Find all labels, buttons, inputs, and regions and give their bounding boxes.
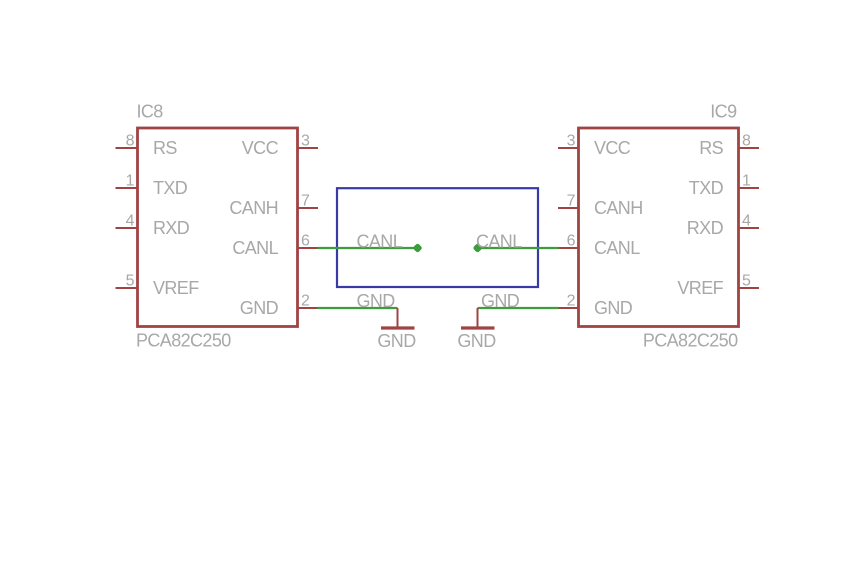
- IC8 pin 3 VCC: [242, 133, 318, 159]
- IC8 pin 1 TXD: [116, 173, 188, 199]
- svg-text:PCA82C250: PCA82C250: [136, 331, 231, 351]
- IC U9 body (PCA82C250 right): [579, 128, 739, 327]
- svg-text:PCA82C250: PCA82C250: [643, 331, 738, 351]
- svg-text:TXD: TXD: [153, 178, 188, 198]
- IC8 pin 6 CANL: [232, 233, 318, 259]
- svg-text:5: 5: [126, 273, 135, 290]
- svg-text:1: 1: [742, 173, 751, 190]
- svg-text:VCC: VCC: [594, 138, 631, 158]
- wire net CANL from right junction to IC9 pin 6: [481, 247, 559, 249]
- wire net CANL from IC8 pin 6 to left junction: [318, 247, 415, 249]
- IC9 pin 5 VREF: [677, 273, 759, 299]
- IC9 pin 2 GND: [558, 293, 633, 319]
- svg-text:IC8: IC8: [137, 102, 164, 122]
- wire net GND from ground to IC9 pin 2 (right): [478, 307, 559, 309]
- svg-text:3: 3: [567, 133, 576, 150]
- svg-text:1: 1: [126, 173, 135, 190]
- IC9 pin 4 RXD: [687, 213, 759, 239]
- IC8 pin 5 VREF: [116, 273, 200, 299]
- svg-text:CANL: CANL: [232, 238, 278, 258]
- svg-text:CANH: CANH: [594, 198, 643, 218]
- svg-text:VREF: VREF: [677, 278, 723, 298]
- svg-text:2: 2: [567, 293, 576, 310]
- IC9 pin 7 CANH: [558, 193, 643, 219]
- svg-text:GND: GND: [357, 291, 396, 311]
- ground symbol (right): [461, 308, 495, 328]
- IC9 pin 3 VCC: [558, 133, 631, 159]
- svg-text:CANL: CANL: [476, 232, 522, 252]
- svg-text:TXD: TXD: [689, 178, 724, 198]
- svg-text:6: 6: [567, 233, 576, 250]
- svg-text:RXD: RXD: [153, 218, 190, 238]
- svg-text:2: 2: [301, 293, 310, 310]
- svg-text:GND: GND: [457, 331, 496, 351]
- wire net GND from IC8 pin 2 to ground (left): [318, 307, 398, 309]
- svg-text:VCC: VCC: [242, 138, 279, 158]
- svg-text:6: 6: [301, 233, 310, 250]
- svg-text:VREF: VREF: [153, 278, 199, 298]
- svg-text:5: 5: [742, 273, 751, 290]
- svg-text:8: 8: [742, 133, 751, 150]
- svg-text:7: 7: [567, 193, 576, 210]
- svg-text:CANL: CANL: [357, 232, 403, 252]
- svg-text:CANL: CANL: [594, 238, 640, 258]
- IC9 pin 6 CANL: [558, 233, 640, 259]
- ground symbol (left): [381, 308, 415, 328]
- svg-text:RS: RS: [699, 138, 723, 158]
- IC8 pin 7 CANH: [229, 193, 318, 219]
- blue annotation box: [337, 188, 538, 287]
- IC8 pin 4 RXD: [116, 213, 190, 239]
- svg-text:GND: GND: [594, 298, 633, 318]
- svg-text:7: 7: [301, 193, 310, 210]
- IC8 pin 8 RS: [116, 133, 178, 159]
- svg-text:GND: GND: [240, 298, 279, 318]
- IC9 pin 1 TXD: [689, 173, 759, 199]
- IC9 pin 8 RS: [699, 133, 759, 159]
- IC U8 body (PCA82C250 left): [138, 128, 298, 327]
- svg-text:RS: RS: [153, 138, 177, 158]
- junction on net CANL (right): [474, 244, 482, 252]
- svg-text:IC9: IC9: [710, 102, 737, 122]
- svg-text:4: 4: [126, 213, 135, 230]
- svg-text:GND: GND: [481, 291, 520, 311]
- svg-text:RXD: RXD: [687, 218, 724, 238]
- junction on net CANL (left): [414, 244, 422, 252]
- svg-text:GND: GND: [377, 331, 416, 351]
- IC8 pin 2 GND: [240, 293, 318, 319]
- svg-text:4: 4: [742, 213, 751, 230]
- svg-text:CANH: CANH: [229, 198, 278, 218]
- svg-text:3: 3: [301, 133, 310, 150]
- svg-text:8: 8: [126, 133, 135, 150]
